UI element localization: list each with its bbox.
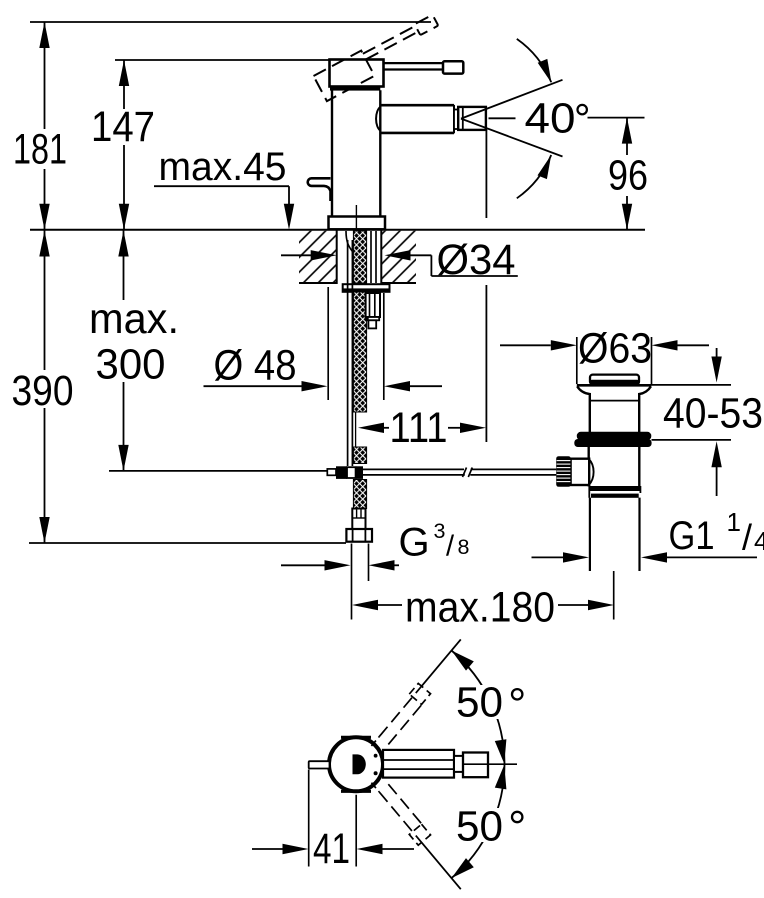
pop-up rod vertical pair [347, 240, 349, 466]
plan centerline [464, 763, 518, 765]
spout plan outer [383, 750, 454, 778]
svg-text:4: 4 [754, 526, 764, 556]
aerator neck [454, 110, 458, 130]
dimension max.180 [352, 585, 614, 632]
svg-text:3: 3 [434, 519, 446, 543]
50 deg arc upper [452, 651, 505, 765]
dimension G3/8 arrows [281, 519, 470, 571]
pop-up rod knob at rear [308, 178, 331, 201]
dashed handle in raised position [314, 13, 446, 101]
lever grip end [443, 61, 463, 73]
faucet body column [331, 90, 333, 216]
dimension 147 [91, 60, 155, 230]
dimension 40-53 [645, 348, 763, 496]
waste body sides [588, 446, 590, 460]
mousseur outlet box [458, 107, 486, 130]
dimension 111 [358, 405, 486, 452]
spout end vertical [453, 105, 455, 133]
head dark ring band [330, 86, 380, 90]
svg-text:Ø63: Ø63 [578, 326, 652, 373]
side port cylinder [571, 459, 590, 485]
svg-text:181: 181 [13, 127, 67, 174]
horizontal rod to waste, left segment [363, 468, 464, 470]
waste O-ring [577, 432, 652, 440]
deck underside line right [381, 282, 416, 284]
rod stub left [309, 761, 330, 768]
svg-text:40: 40 [525, 96, 576, 143]
waste neck joint line [590, 400, 639, 402]
lower swing handle dashed [368, 775, 470, 892]
rod stub left of tee [327, 469, 336, 475]
svg-text:390: 390 [12, 368, 74, 415]
waste centerline extension [613, 571, 615, 620]
shank wall right [380, 230, 382, 284]
hose left edge through dimension gap [355, 412, 357, 447]
svg-text:300: 300 [96, 342, 166, 389]
hose end fitting [352, 509, 365, 530]
tailpipe [589, 498, 591, 571]
horizontal rod right segment [471, 468, 557, 470]
svg-text:G1: G1 [669, 514, 715, 558]
dimension G1 1/4 [532, 507, 764, 563]
svg-text:50: 50 [456, 680, 503, 727]
dimension max.45 [154, 145, 294, 230]
40 deg leader lines [489, 117, 516, 119]
deck underside line left [299, 282, 337, 284]
svg-text:96: 96 [608, 153, 648, 200]
dimension 41 [252, 826, 414, 873]
svg-text:max.45: max.45 [159, 145, 287, 189]
svg-text:max.180: max.180 [405, 585, 555, 632]
shank wall left [336, 230, 338, 284]
braided hose above tee [353, 447, 366, 464]
spout root arc [376, 106, 381, 131]
plan center vertical extension [355, 795, 357, 867]
svg-text:/: / [742, 517, 752, 558]
body circle [329, 737, 383, 791]
D-shaped cartridge hole [353, 754, 366, 774]
extension line handle level (147) [115, 59, 330, 61]
waste plug cap [590, 375, 639, 385]
bottom chord [341, 790, 371, 793]
cartridge head block [330, 60, 384, 87]
deck hatching left of shank [299, 231, 337, 283]
deck hatching right of shank [382, 231, 417, 283]
svg-text:Ø34: Ø34 [437, 237, 516, 284]
locknut under deck [343, 284, 390, 292]
label 50 deg lower [454, 808, 505, 842]
dimension max.300 [89, 231, 327, 471]
rod tee joint [336, 466, 347, 479]
svg-text:/: / [446, 531, 455, 563]
dimension 181 [13, 22, 67, 230]
G3/8 connection nut [346, 529, 372, 542]
spray fan lower line [461, 119, 563, 157]
extension line top (total height 181) [30, 21, 431, 23]
braided hose below locknut [353, 292, 366, 412]
mousseur inner line [462, 108, 464, 130]
40 deg arc lower [517, 155, 551, 198]
spray fan upper line [461, 80, 563, 119]
svg-text:Ø 48: Ø 48 [214, 343, 297, 390]
upper swing handle dashed [368, 637, 470, 754]
svg-text:50: 50 [456, 804, 503, 851]
hose bend line in shank [346, 231, 353, 252]
svg-text:1: 1 [727, 507, 741, 537]
deck top surface line [30, 229, 645, 231]
spout tube [380, 104, 454, 107]
spout centerline extension [485, 129, 487, 219]
rod centerline inside body [355, 205, 357, 229]
braided hose in shank [353, 231, 366, 283]
faucet base plate [329, 217, 386, 230]
index dots [374, 754, 378, 758]
union nut [589, 486, 640, 491]
svg-text:41: 41 [313, 826, 350, 873]
svg-text:111: 111 [390, 405, 448, 452]
svg-text:max.: max. [89, 296, 179, 343]
check valve housing on shank [366, 293, 380, 317]
50 deg arc lower [452, 764, 505, 878]
40 deg arc upper [517, 39, 551, 82]
waste trumpet left [577, 386, 590, 432]
dimension O48 [204, 287, 443, 400]
waste seal skirt [574, 439, 651, 447]
lever bar [384, 62, 445, 64]
top chord [341, 736, 371, 739]
dimension O63 [500, 326, 709, 385]
waste trumpet right [639, 386, 651, 432]
dimension 390 [12, 231, 347, 544]
spout plan end cap [463, 753, 488, 778]
svg-text:8: 8 [458, 535, 470, 559]
waste flange top line [577, 384, 652, 387]
shank inner guide lines [370, 231, 372, 283]
spout plan neck [454, 756, 463, 772]
svg-text:40-53: 40-53 [663, 391, 763, 438]
dimension O34 [281, 237, 518, 284]
knurled adjuster knob [556, 456, 571, 487]
svg-text:G: G [399, 521, 430, 565]
rod stub extension line [308, 770, 310, 867]
svg-text:147: 147 [91, 104, 155, 151]
G3/8 extension lines [351, 544, 353, 620]
dimension 96 [608, 118, 648, 230]
braided hose below tee [353, 480, 366, 509]
label 50 deg upper [454, 685, 505, 719]
